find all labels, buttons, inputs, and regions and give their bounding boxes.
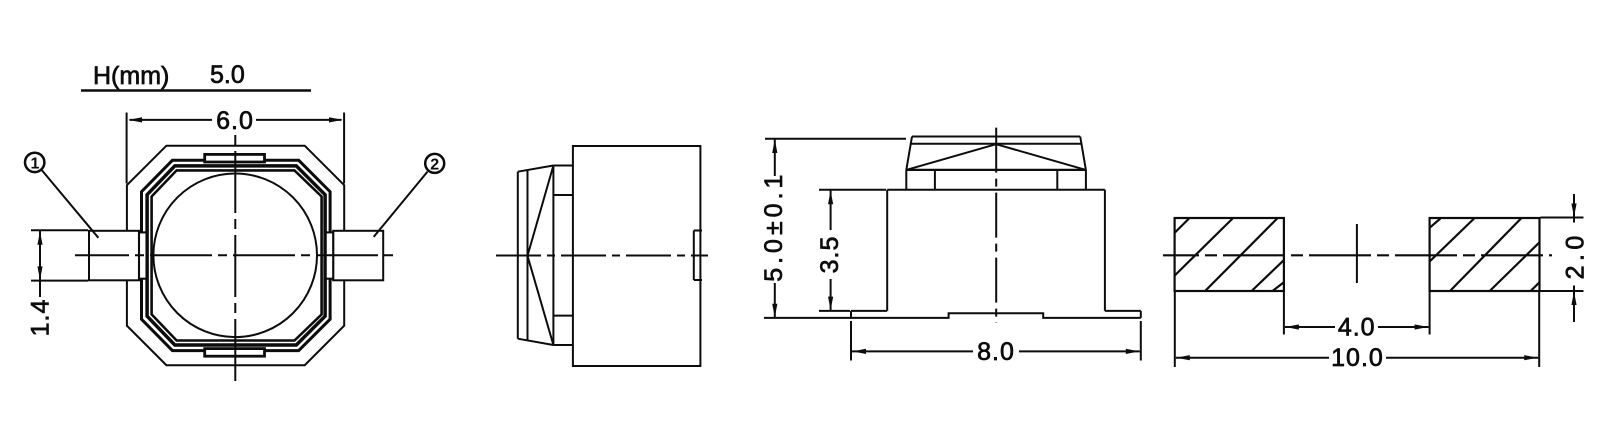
- vertical centerline: [995, 126, 997, 323]
- dim 1.4 arrow up: [37, 231, 42, 245]
- stem flange top edge: [553, 165, 573, 167]
- side notch inner edge: [693, 231, 695, 281]
- dim 4.0 arrow left: [1285, 324, 1299, 329]
- button circle: [153, 174, 317, 338]
- lead 1 inner tab: [139, 232, 147, 278]
- dim 8.0 extension right: [1140, 321, 1142, 361]
- right pad outline: [1430, 218, 1540, 291]
- horizontal centerline: [496, 255, 708, 257]
- lead terminal 2 (right): [333, 231, 383, 280]
- dim 3.5 arrow down: [828, 297, 833, 311]
- stem flange left edge: [552, 166, 554, 346]
- header underline: [81, 89, 311, 91]
- dim 4.0 arrow right: [1415, 324, 1429, 329]
- dim 10.0 arrow right: [1524, 355, 1538, 360]
- dim 4.0 extension left: [1283, 292, 1285, 335]
- right foot outer edge: [1140, 311, 1142, 318]
- stem inner left: [934, 170, 936, 190]
- dim 3.5 line: [830, 190, 832, 230]
- cap bottom edge: [906, 169, 1086, 171]
- svg-text:8.0: 8.0: [977, 338, 1015, 366]
- pin label 1 circle: [25, 153, 44, 172]
- dim 5.0±0.1 line: [774, 139, 776, 176]
- dim 10.0 arrow left: [1176, 355, 1190, 360]
- svg-text:H(mm): H(mm): [93, 62, 169, 90]
- dim 2.0 arrow up: [1571, 292, 1576, 306]
- inner ring B (thick): [147, 166, 325, 345]
- dim 5.0±0.1 extension bottom: [764, 317, 851, 319]
- cone right line: [996, 144, 1086, 170]
- dim 8.0 extension left: [850, 321, 852, 361]
- dim 2.0 line bottom: [1573, 286, 1575, 323]
- plunger cap inner edge: [527, 170, 529, 340]
- side notch top: [694, 230, 702, 232]
- pin label 1 leader: [42, 170, 98, 237]
- dim 5.0±0.1 extension top: [765, 138, 906, 140]
- cone left line: [906, 144, 996, 170]
- outer octagon body outline: [127, 146, 344, 366]
- dim 2.0 extension bottom: [1541, 290, 1584, 292]
- dim 3.5 extension bottom: [819, 310, 850, 312]
- dim 8.0 arrow right: [1126, 349, 1140, 354]
- dim 2.0 extension top: [1541, 217, 1584, 219]
- svg-text:3.5: 3.5: [816, 236, 844, 274]
- dim 2.0 line top: [1573, 194, 1575, 223]
- cap second edge: [911, 143, 1081, 145]
- inner ring A: [142, 160, 331, 350]
- stem inner right: [1056, 170, 1058, 190]
- dim 10.0 line: [1176, 357, 1329, 359]
- pin label 2 leader: [374, 172, 428, 237]
- bottom tab: [205, 349, 265, 357]
- dim 10.0 extension right: [1538, 292, 1540, 367]
- cap right slant: [1080, 137, 1086, 170]
- right pad hatching: [1430, 219, 1540, 292]
- dim 3.5 extension top: [819, 189, 886, 191]
- left foot top: [851, 310, 887, 312]
- dim 8.0 arrow left: [853, 349, 867, 354]
- left pad hatching: [1175, 219, 1284, 292]
- left foot outer edge: [850, 311, 852, 318]
- dim 8.0 line: [852, 350, 973, 352]
- horizontal centerline: [1163, 254, 1552, 256]
- lead 2 inner tab: [326, 232, 334, 278]
- pin label 2 circle: [425, 154, 444, 173]
- vertical centerline: [234, 135, 236, 381]
- svg-text:1.4: 1.4: [27, 299, 55, 337]
- svg-text:10.0: 10.0: [1331, 344, 1384, 372]
- horizontal centerline: [75, 254, 396, 256]
- stem outer left: [905, 170, 907, 190]
- cap left slant: [906, 137, 912, 170]
- dim 6.0 line: [130, 119, 213, 121]
- dim 5.0±0.1 arrow down: [772, 304, 777, 318]
- side notch bottom: [694, 279, 702, 281]
- dim 3.5 arrow up: [828, 191, 833, 205]
- stem step lower: [553, 315, 573, 317]
- dim 1.4 extension top: [31, 229, 88, 231]
- svg-text:6.0: 6.0: [216, 107, 254, 135]
- stem flange bottom edge: [553, 344, 573, 346]
- top tab: [205, 154, 265, 162]
- stem step upper: [553, 194, 573, 196]
- dim 4.0 extension right: [1429, 292, 1431, 335]
- dim 10.0 extension left: [1174, 292, 1176, 367]
- dim 1.4 extension bottom: [31, 280, 88, 282]
- body left edge: [886, 190, 888, 311]
- svg-text:1: 1: [30, 156, 39, 173]
- dim 6.0 extension line right: [343, 113, 345, 184]
- plunger cap front face left edge: [517, 172, 519, 339]
- plunger cap bottom slant: [518, 339, 554, 345]
- svg-text:2: 2: [430, 157, 439, 174]
- cap top edge: [912, 136, 1080, 138]
- body right edge: [1104, 190, 1106, 311]
- svg-text:4.0: 4.0: [1338, 314, 1376, 342]
- stem outer right: [1085, 170, 1087, 190]
- dim 4.0 line: [1285, 326, 1335, 328]
- dim 1.4 line: [39, 231, 41, 297]
- svg-text:2.0: 2.0: [1562, 231, 1590, 279]
- body top edge: [887, 189, 1105, 191]
- lead terminal 1 (left): [89, 231, 139, 280]
- dim 2.0 arrow down: [1571, 204, 1576, 218]
- left pad outline: [1175, 218, 1284, 291]
- inner ring C: [152, 170, 322, 340]
- dim 6.0 arrow left: [129, 117, 143, 122]
- svg-text:5.0: 5.0: [210, 61, 245, 89]
- plunger cone upper line: [528, 166, 554, 256]
- plunger cap top slant: [518, 166, 554, 172]
- vertical center cross: [1356, 224, 1358, 283]
- right foot top: [1105, 310, 1141, 312]
- plunger cone lower line: [528, 256, 554, 345]
- dim 6.0 extension line left: [126, 113, 128, 184]
- bottom profile: [851, 313, 1141, 318]
- svg-text:5.0±0.1: 5.0±0.1: [760, 171, 788, 282]
- dim 1.4 arrow down: [37, 266, 42, 280]
- dim 5.0±0.1 arrow up: [772, 140, 777, 154]
- dim 6.0 arrow right: [329, 117, 343, 122]
- body rectangle: [573, 146, 701, 366]
